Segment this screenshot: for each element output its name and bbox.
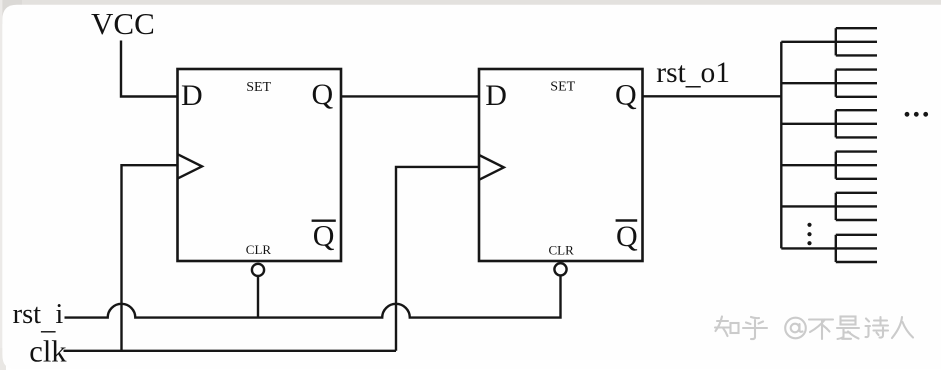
- flip-flop U1 box: [178, 69, 342, 261]
- svg-text:CLR: CLR: [549, 243, 575, 258]
- svg-text:SET: SET: [246, 80, 271, 95]
- flip-flop U2 box: [479, 69, 643, 261]
- char hu: [743, 317, 767, 339]
- load fork 5: [781, 193, 877, 220]
- load fork 4: [781, 152, 877, 179]
- ellipsis dots (more loads, vertical): [807, 223, 811, 246]
- clock triangle U2: [479, 155, 504, 180]
- char bu: [809, 320, 833, 340]
- svg-text:clk: clk: [29, 335, 67, 369]
- load fork 3: [781, 110, 877, 137]
- clock triangle U1: [178, 154, 203, 178]
- svg-text:CLR: CLR: [246, 242, 272, 257]
- top gray band: [0, 0, 941, 5]
- svg-text:Q: Q: [615, 79, 637, 112]
- load fork 6: [781, 235, 877, 262]
- wire: rst_i branch up to U1 clr: [257, 277, 259, 318]
- left edge gray sliver: [0, 0, 2, 370]
- ellipsis dots (more loads, horizontal): [905, 112, 929, 117]
- wire: clk branch to U1 clock: [122, 165, 178, 351]
- at sign: [785, 318, 806, 339]
- clr bubble U1: [252, 264, 264, 276]
- svg-text:Q: Q: [313, 219, 335, 252]
- watermark: zhihu @bushishiren (drawn strokes, light gray): [715, 317, 913, 340]
- bottom-left gray corner patch: [0, 348, 6, 370]
- fanout bus vertical: [780, 42, 782, 249]
- wire: U2 Q output rst_o1 to fanout bus: [643, 95, 783, 97]
- wire: VCC lead down and into D of U1: [121, 41, 178, 97]
- svg-text:VCC: VCC: [91, 6, 155, 41]
- wire: rst_i run with hops over clk risers, up to U2 clr: [65, 276, 561, 318]
- char ren: [892, 317, 913, 338]
- wire: U1 Q to U2 D: [341, 95, 479, 97]
- pin label Qbar of U2: [616, 220, 638, 253]
- wire: clk branch to U2 clock: [396, 167, 479, 351]
- wire: clk main run: [64, 350, 397, 352]
- svg-text:D: D: [485, 79, 507, 112]
- pin label Qbar of U1: [312, 219, 336, 252]
- svg-text:D: D: [181, 79, 203, 112]
- svg-text:rst_o1: rst_o1: [656, 57, 730, 91]
- svg-text:Q: Q: [312, 78, 334, 111]
- load fork 1: [781, 28, 877, 55]
- char shi2: [866, 317, 889, 338]
- load fork 2: [781, 70, 877, 97]
- svg-text:SET: SET: [550, 80, 575, 95]
- char zhi: [715, 317, 739, 337]
- char shi: [837, 317, 859, 340]
- top-left gray corner patch: [0, 0, 22, 24]
- clr bubble U2: [554, 263, 566, 275]
- svg-text:Q: Q: [616, 220, 638, 253]
